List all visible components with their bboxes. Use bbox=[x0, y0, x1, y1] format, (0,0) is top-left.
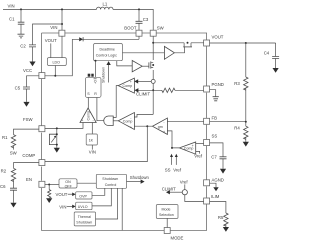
wire VOUT external bbox=[210, 42, 276, 44]
wire gm + input to SS/Vref bbox=[167, 131, 179, 148]
pin FSW bbox=[39, 126, 45, 132]
wire BOOT pin stub bbox=[138, 36, 140, 39]
node junction dot FSW branch bbox=[56, 127, 58, 129]
op-amp gm error amplifier bbox=[153, 118, 168, 134]
svg-text:C5: C5 bbox=[15, 85, 21, 90]
svg-text:Control Logic: Control Logic bbox=[96, 54, 117, 58]
capacitor C5 bbox=[27, 76, 39, 87]
wire VOUT internal rail bbox=[153, 42, 203, 44]
svg-text:R3: R3 bbox=[234, 81, 240, 86]
svg-text:COMP: COMP bbox=[22, 153, 35, 158]
wire SS comp input to SS pin bbox=[196, 143, 204, 145]
svg-text:R: R bbox=[94, 92, 97, 96]
driver U2 (high side buffer) bbox=[164, 46, 174, 59]
svg-text:CLIMIT: CLIMIT bbox=[136, 91, 150, 96]
svg-text:Thermal: Thermal bbox=[78, 215, 91, 219]
wire ON/OFF to Shutdown Control bbox=[77, 182, 96, 184]
svg-text:UVLO: UVLO bbox=[78, 205, 88, 209]
wire VIN pin drop bbox=[61, 9, 63, 30]
wire Shutdown Control to bottom bbox=[121, 188, 123, 230]
resistor R4 bbox=[245, 122, 247, 127]
current source (FSW) bbox=[56, 128, 58, 147]
resistor sense (to PGND) bbox=[175, 89, 204, 91]
wire SW node vertical bbox=[152, 36, 154, 60]
pin BOOT bbox=[136, 30, 142, 36]
sensor circle (current sense) bbox=[151, 79, 155, 83]
diode bootstrap bbox=[72, 38, 139, 40]
ground (C2 arrow) bbox=[29, 62, 35, 67]
ground (C1, 3-bar) bbox=[18, 34, 25, 38]
node junction dot VOUT/C4 bbox=[245, 42, 247, 44]
wire LDO to VCC bbox=[45, 39, 72, 76]
svg-text:R4: R4 bbox=[234, 126, 240, 131]
resistor R2 bbox=[14, 163, 39, 169]
node VIN top rail bbox=[3, 9, 153, 31]
svg-text:Vref: Vref bbox=[173, 167, 182, 172]
svg-text:C2: C2 bbox=[20, 43, 26, 48]
pin ILIM bbox=[204, 198, 210, 204]
transistor Q1 (high side) bbox=[184, 43, 191, 47]
svg-text:Comp: Comp bbox=[87, 111, 91, 121]
wire latch S input (from oscillator) bbox=[87, 98, 89, 109]
capacitor C6 bbox=[10, 188, 17, 190]
latch top marks bbox=[88, 74, 91, 77]
resistor R1 bbox=[14, 129, 39, 135]
logic ON/OFF box bbox=[59, 179, 77, 188]
wire gm - input to FB bbox=[167, 120, 203, 122]
node junction dot VIN/C1 bbox=[20, 8, 22, 10]
svg-text:Shutdown: Shutdown bbox=[130, 175, 150, 180]
svg-text:VCC: VCC bbox=[23, 68, 32, 73]
pin AGND bbox=[204, 180, 210, 186]
svg-text:R2: R2 bbox=[1, 169, 7, 174]
svg-text:Q: Q bbox=[94, 80, 97, 84]
svg-text:BOOT: BOOT bbox=[124, 25, 137, 30]
svg-text:Selection: Selection bbox=[159, 213, 174, 217]
svg-text:OVP: OVP bbox=[79, 195, 87, 199]
pin SS bbox=[204, 140, 210, 146]
wire VIN pin to LDO bbox=[61, 36, 63, 57]
ground (R4 arrow) bbox=[243, 142, 249, 147]
svg-text:VIN: VIN bbox=[50, 25, 57, 30]
svg-text:+: + bbox=[130, 80, 132, 84]
pin SW bbox=[150, 30, 156, 36]
ground (EN pulldown arrow) bbox=[46, 198, 52, 203]
svg-text:SS: SS bbox=[165, 167, 171, 172]
signal SS arrow bbox=[171, 157, 173, 165]
op-amp SS comparator bbox=[179, 142, 195, 154]
node junction dot C2 branch bbox=[61, 23, 63, 25]
logic OVP box bbox=[76, 192, 92, 199]
resistor EN pulldown bbox=[48, 185, 50, 190]
IC boundary box bbox=[42, 33, 207, 230]
svg-text:SW: SW bbox=[10, 151, 18, 156]
node junction dot LDO/VCC bbox=[54, 75, 56, 77]
svg-text:Vref: Vref bbox=[180, 180, 189, 185]
pin VIN bbox=[59, 30, 65, 36]
svg-text:+: + bbox=[192, 144, 194, 148]
signal Vref arrow bbox=[175, 157, 177, 165]
resistor R5 bbox=[210, 202, 226, 214]
ground (C5 arrow) bbox=[23, 102, 29, 107]
pin COMP bbox=[39, 160, 45, 166]
pin FB bbox=[204, 118, 210, 124]
svg-text:Shutdown: Shutdown bbox=[102, 177, 118, 181]
driver U3 (low side buffer) bbox=[132, 61, 142, 72]
svg-text:VOUT: VOUT bbox=[212, 34, 224, 39]
wire SS comp Vref stub bbox=[196, 151, 200, 153]
svg-text:Mode: Mode bbox=[162, 207, 171, 211]
svg-text:R5: R5 bbox=[218, 215, 224, 220]
capacitor C1 bbox=[20, 9, 22, 22]
wire gm output to COMP pin bbox=[146, 125, 148, 127]
svg-text:1K: 1K bbox=[89, 138, 94, 142]
logic Shutdown Control box bbox=[96, 174, 126, 188]
svg-text:Vref: Vref bbox=[194, 154, 203, 159]
svg-text:Comp: Comp bbox=[123, 120, 133, 124]
latch U4 (S-R) bbox=[85, 77, 101, 97]
logic Mode Selection box bbox=[156, 205, 178, 219]
wire FB external bbox=[210, 121, 246, 123]
transistor Q2 (low side) bbox=[151, 62, 153, 67]
signal Shutdown arrow (into deadtime) bbox=[108, 65, 110, 83]
ground (C6 arrow) bbox=[10, 203, 16, 208]
logic UVLO box bbox=[76, 202, 92, 210]
wire VOUT to LDO bbox=[50, 43, 52, 57]
svg-text:FB: FB bbox=[212, 115, 218, 120]
ground (current source arrow) bbox=[54, 148, 60, 153]
wire OVP to Shutdown Control bbox=[92, 188, 105, 195]
wire PWM comp output to AND bbox=[113, 120, 118, 122]
logic Thermal Shutdown box bbox=[74, 212, 95, 226]
wire Mode Selection to MODE pin bbox=[166, 218, 168, 227]
svg-text:+: + bbox=[130, 126, 132, 130]
svg-text:SW: SW bbox=[157, 25, 165, 30]
regulator LDO box bbox=[47, 58, 66, 66]
wire deadtime to latch bbox=[95, 60, 97, 62]
svg-text:FSW: FSW bbox=[23, 117, 33, 122]
wire sense to PWM comp input bbox=[134, 114, 153, 117]
svg-text:SS: SS bbox=[212, 134, 218, 139]
wire deadtime to driver U2 bbox=[122, 52, 164, 54]
logic Deadtime Control Logic box bbox=[94, 44, 123, 61]
pin PGND bbox=[204, 86, 210, 92]
ground (C4 arrow) bbox=[273, 68, 279, 73]
wire gm out to PWM comp input bbox=[134, 125, 152, 127]
capacitor C4 bbox=[275, 43, 277, 57]
op-amp PWM comparator bbox=[118, 113, 134, 130]
ground (PGND 3-bar) bbox=[210, 90, 216, 97]
pin VCC bbox=[39, 73, 45, 79]
svg-text:PGND: PGND bbox=[212, 82, 224, 87]
pin VOUT bbox=[204, 40, 210, 46]
svg-text:OFF: OFF bbox=[65, 184, 73, 188]
gate AND (PWM) bbox=[104, 116, 113, 126]
svg-text:Comp: Comp bbox=[123, 84, 133, 88]
svg-text:ILIM: ILIM bbox=[211, 194, 220, 199]
wire deadtime to driver U3 bbox=[117, 61, 132, 66]
node junction dot FB bbox=[245, 121, 247, 123]
svg-text:VIN: VIN bbox=[89, 149, 96, 154]
svg-text:R1: R1 bbox=[2, 135, 8, 140]
svg-text:MODE: MODE bbox=[171, 235, 184, 240]
svg-text:Deadtime: Deadtime bbox=[100, 48, 115, 52]
svg-text:Shutdown: Shutdown bbox=[101, 67, 105, 83]
wire latch R input (from AND gate) bbox=[97, 98, 104, 121]
svg-text:VOUT: VOUT bbox=[45, 38, 57, 43]
svg-text:gm: gm bbox=[158, 125, 163, 129]
ground (R5 arrow) bbox=[223, 227, 229, 232]
svg-text:L1: L1 bbox=[103, 2, 108, 7]
svg-text:+: + bbox=[81, 119, 83, 123]
svg-text:VOUT: VOUT bbox=[56, 192, 68, 197]
svg-text:C4: C4 bbox=[264, 51, 270, 56]
resistor R3 bbox=[245, 43, 247, 77]
wire SW vertical lower bbox=[152, 70, 154, 79]
svg-text:EN: EN bbox=[26, 177, 32, 182]
svg-text:C6: C6 bbox=[0, 184, 6, 189]
capacitor C7 bbox=[210, 143, 223, 157]
node junction dot sense/resistor bbox=[152, 89, 154, 91]
svg-text:C7: C7 bbox=[211, 155, 217, 160]
svg-text:C1: C1 bbox=[9, 17, 15, 22]
wire UVLO to Shutdown Control bbox=[92, 188, 111, 206]
wire sense to CLIMIT comparator bbox=[138, 80, 151, 82]
wire Thermal to Shutdown Control bbox=[96, 188, 118, 219]
ground (C7 arrow) bbox=[220, 169, 226, 174]
node junction dot VIN drop bbox=[61, 8, 63, 10]
svg-text:LDO: LDO bbox=[53, 60, 61, 64]
svg-text:C3: C3 bbox=[143, 17, 149, 22]
svg-text:VIN: VIN bbox=[8, 4, 15, 9]
svg-text:VIN: VIN bbox=[59, 205, 66, 210]
resistor 1K box bbox=[91, 123, 93, 135]
svg-text:CLIMIT: CLIMIT bbox=[162, 187, 176, 192]
capacitor C2 bbox=[33, 24, 63, 45]
pin MODE bbox=[164, 228, 170, 234]
ground (AGND arrow) bbox=[210, 183, 216, 187]
svg-text:AGND: AGND bbox=[212, 177, 224, 182]
wire EN internal bbox=[45, 184, 59, 186]
wire oscillator + input to FSW bbox=[45, 123, 83, 129]
svg-text:Control: Control bbox=[105, 183, 117, 187]
signal CLIMIT arrow bbox=[170, 191, 183, 193]
svg-text:+: + bbox=[163, 130, 165, 134]
capacitor C3 bbox=[138, 8, 140, 10]
op-amp CLIMIT comparator bbox=[118, 78, 134, 93]
svg-text:Shutdown: Shutdown bbox=[76, 221, 92, 225]
wire CLIMIT comp output to AND gate bbox=[113, 86, 118, 118]
op-amp oscillator comparator bbox=[80, 108, 96, 123]
pin EN bbox=[39, 181, 45, 187]
